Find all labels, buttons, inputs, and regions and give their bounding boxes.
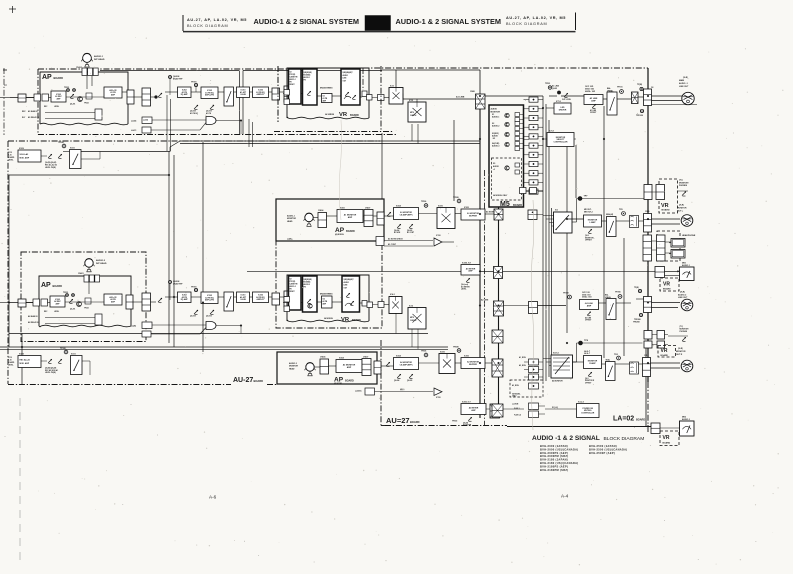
svg-text:S2 A1+A2: S2 A1+A2 [20, 153, 29, 156]
svg-text:TP506: TP506 [421, 201, 426, 203]
svg-text:BVH-2500 (US)/(CANADA): BVH-2500 (US)/(CANADA) [589, 447, 627, 451]
svg-text:TPE108: TPE108 [636, 115, 643, 117]
svg-text:AMPLIFY: AMPLIFY [257, 93, 266, 96]
svg-text:BVH-2180PS (AEP): BVH-2180PS (AEP) [540, 464, 568, 468]
board headphone dashed box [657, 231, 680, 261]
svg-text:LEVEL PH(M): LEVEL PH(M) [45, 167, 56, 169]
svg-text:A1 PB EQ: A1 PB EQ [190, 112, 199, 115]
block A2 LINE AMP [580, 300, 599, 310]
transistor vr2 [308, 304, 312, 308]
test point TP301 [194, 83, 197, 86]
svg-text:BVH-2500 (JAPAN): BVH-2500 (JAPAN) [589, 444, 617, 448]
svg-text:BOARD: BOARD [345, 380, 354, 383]
svg-text:TP202: TP202 [84, 103, 89, 105]
wire A2 row joins [599, 302, 607, 304]
svg-text:CONTROLLER: CONTROLLER [581, 412, 595, 414]
svg-text:Q/L605: Q/L605 [407, 380, 412, 382]
svg-text:VR: VR [341, 317, 350, 323]
wire monitor1 chain [384, 215, 394, 217]
svg-text:HEAD: HEAD [289, 367, 295, 370]
top-left small wire stubs [0, 97, 10, 99]
svg-text:AUDIO-2: AUDIO-2 [682, 418, 690, 421]
svg-text:A2 LINE: A2 LINE [481, 299, 489, 302]
svg-text:04 MODEL ONLY: 04 MODEL ONLY [493, 194, 508, 197]
svg-text:AP: AP [42, 74, 52, 81]
board VR2 box wavy [287, 275, 369, 321]
svg-text:AU-27, AP, LA-02, VR, M5: AU-27, AP, LA-02, VR, M5 [506, 16, 566, 20]
svg-text:(XLR): (XLR) [683, 77, 688, 79]
svg-text:AUDIO -1: AUDIO -1 [679, 82, 689, 85]
svg-text:AUDIO-1: AUDIO-1 [492, 116, 499, 119]
svg-text:AUDIO-1: AUDIO-1 [94, 55, 104, 58]
block IC302 A2 PB EQ AMP [178, 292, 192, 303]
svg-text:Q/L(M): Q/L(M) [463, 423, 469, 425]
svg-text:Q/L605: Q/L605 [407, 230, 412, 232]
wire chain ap2 [26, 302, 33, 304]
connector VR2 out squares [362, 301, 367, 307]
wire mod amp upper [41, 155, 47, 157]
svg-text:AP: AP [41, 282, 51, 289]
svg-text:IC6: IC6 [555, 210, 558, 212]
svg-text:AUDIO-1 & 2 SIGNAL SYSTEM: AUDIO-1 & 2 SIGNAL SYSTEM [254, 17, 360, 26]
connector monitor R out [643, 358, 651, 377]
svg-text:IC504: IC504 [396, 205, 401, 208]
block AUDIO LINE OUT (thick) [341, 69, 360, 105]
svg-text:MB OUT-2: MB OUT-2 [584, 211, 593, 213]
svg-text:RTC(M): RTC(M) [290, 281, 296, 283]
svg-text:R/P HEAD: R/P HEAD [94, 58, 105, 61]
wire vertical x=249/252 mute lines [248, 119, 250, 147]
test point TP7 [578, 197, 582, 201]
svg-text:A2 RELAY IN: A2 RELAY IN [28, 321, 40, 324]
svg-text:HEAD: HEAD [287, 220, 293, 223]
svg-text:TP50B: TP50B [453, 347, 459, 349]
svg-text:BVH-2000PM (SRZ): BVH-2000PM (SRZ) [540, 454, 568, 458]
trimmers below IC504 [397, 224, 401, 228]
board AP monitor1 box [276, 199, 384, 241]
board VR1 box wavy [287, 68, 369, 118]
la02 dashed 04-model box [510, 380, 543, 397]
svg-text:DRIVER: DRIVER [559, 109, 567, 111]
switch S301 [224, 87, 234, 106]
trimmer meter amp [466, 278, 470, 282]
node input pad [18, 94, 26, 102]
board border left x=38 top section [37, 69, 39, 135]
board VR2 outer dash-dot box [276, 241, 382, 328]
svg-text:CONTROLLER: CONTROLLER [554, 142, 568, 144]
svg-text:PHONES: PHONES [679, 185, 688, 187]
svg-text:CHECK: CHECK [410, 320, 417, 322]
hatched connector [632, 92, 639, 104]
connector VR1 in squares [284, 90, 290, 96]
block AUDIO LINE OUT 2 (thick) [342, 276, 360, 312]
block IC302 A1 PB EQ AMP [178, 87, 192, 98]
wire inside monitor1 [314, 217, 319, 219]
svg-text:BOARD: BOARD [663, 288, 671, 291]
wire vertical x=382 VR to AP monitor [381, 133, 383, 199]
svg-text:OUT L: OUT L [677, 211, 684, 213]
connector CN(M) on monitor feed [528, 210, 537, 220]
svg-text:AMP: AMP [468, 270, 473, 273]
connector on bus monitor1 [494, 209, 503, 220]
small relay box [86, 93, 92, 99]
connector A2 line out stack [644, 297, 652, 313]
chain right of monitor1: trimmer [387, 212, 391, 216]
wire vertical x=454 [453, 120, 455, 201]
board VR dashed box 2 [660, 278, 679, 291]
test point Q/L908 label [169, 76, 172, 79]
svg-text:OUT LEVEL: OUT LEVEL [562, 99, 571, 101]
wire VR2 chain [283, 302, 289, 304]
board LA-02 box bottom [507, 426, 651, 428]
svg-text:(XLR): (XLR) [679, 205, 684, 207]
svg-text:AUDIO-1: AUDIO-1 [287, 215, 295, 218]
svg-text:BVH-2180 (US)/(CANADA): BVH-2180 (US)/(CANADA) [540, 461, 578, 465]
svg-text:AU-27: AU-27 [233, 377, 253, 384]
svg-text:LL354: LL354 [143, 119, 148, 122]
block S2 cassette reset 2 (thick) [289, 276, 302, 310]
connector stack la02 top [492, 330, 503, 343]
svg-text:MONITOR: MONITOR [491, 111, 501, 113]
wire monitor2 chain [381, 365, 394, 367]
header separator tick right [575, 13, 577, 31]
wire A1 line row [485, 95, 543, 97]
svg-text:AUDIO: AUDIO [343, 74, 349, 77]
pot symbols VR2 [346, 293, 350, 297]
svg-text:TP(M): TP(M) [634, 287, 639, 289]
wires bundle into R switch [543, 358, 551, 360]
svg-text:AP: AP [335, 227, 345, 234]
wire long horizontal y=151 (mod amp row) [81, 151, 170, 153]
test point TP8 [579, 341, 583, 345]
test point TP6 [622, 212, 626, 216]
svg-text:A1 LINE: A1 LINE [552, 85, 560, 88]
svg-text:BVH-2000 (JAPAN): BVH-2000 (JAPAN) [540, 444, 568, 448]
wire VR1 chain [283, 93, 289, 95]
svg-text:BOARD: BOARD [513, 204, 522, 207]
test point TP208 upper [62, 144, 66, 148]
board AP2 box wavy [39, 276, 131, 326]
svg-text:TP308: TP308 [563, 293, 569, 295]
wire IC11 to top rail [395, 70, 397, 88]
op-amp IC310 buffer [434, 238, 442, 246]
header black separator box [365, 16, 391, 31]
wire audio2 bus y=333 [9, 333, 428, 335]
svg-text:IC1: IC1 [323, 96, 326, 98]
svg-text:CN601: CN601 [78, 273, 84, 275]
svg-text:A1 MUTE CHECK: A1 MUTE CHECK [388, 238, 403, 241]
svg-text:MONITOR/: MONITOR/ [679, 182, 689, 184]
connectors above XLR R row2 [644, 341, 652, 348]
test point TP301 ap2 [194, 288, 197, 291]
svg-text:04 MODEL: 04 MODEL [324, 317, 334, 320]
trimmer pb2 [158, 298, 162, 302]
wire mute bus pair y=141/143.5 [180, 140, 480, 142]
board AP monitor2 box [277, 352, 377, 384]
wire vertical x=203 long [202, 142, 204, 352]
svg-text:OFFSET: OFFSET [590, 112, 596, 114]
svg-text:AMPLIFY: AMPLIFY [257, 298, 266, 301]
test point TP506 m2 [424, 353, 428, 357]
svg-text:A1 RELAY IN: A1 RELAY IN [28, 116, 40, 119]
wire A1 line y=99 to connector [403, 98, 475, 100]
block input squares ap2 [33, 299, 40, 306]
wire R switch out to TP8 [573, 361, 577, 363]
svg-text:BOARD: BOARD [53, 284, 63, 288]
svg-text:TP101: TP101 [617, 87, 623, 89]
connectors above XLR R row1 [644, 331, 652, 340]
connector pair mid [529, 302, 538, 314]
trimmers below IC504 m2 [397, 374, 401, 378]
svg-text:TP306: TP306 [615, 292, 621, 294]
svg-text:AUDIO -1 & 2 SIGNAL: AUDIO -1 & 2 SIGNAL [532, 435, 600, 442]
svg-text:TP(M): TP(M) [637, 84, 642, 86]
board VR dashed box 4 [660, 431, 679, 446]
svg-text:LEVEL: LEVEL [461, 289, 466, 291]
svg-text:MODE(M): MODE(M) [304, 75, 311, 77]
svg-text:TP201: TP201 [64, 87, 69, 89]
svg-text:MONITOR: MONITOR [677, 208, 687, 210]
svg-text:BLOCK DIAGRAM: BLOCK DIAGRAM [604, 436, 645, 442]
block AF LINE AMP [584, 95, 603, 105]
svg-text:AMP: AMP [587, 304, 592, 307]
board AU-27 bottom dash y=384 [8, 384, 231, 386]
trimmer m2 [386, 362, 390, 366]
svg-text:VR: VR [663, 282, 670, 288]
pot monitor phones [682, 192, 686, 196]
svg-text:IC310: IC310 [436, 235, 441, 237]
trimmer rec level [70, 94, 74, 98]
connector pair on bus at monitor row [644, 185, 652, 200]
svg-text:600ΩL: 10Ω: 600ΩL: 10Ω [582, 297, 592, 299]
svg-text:CN201: CN201 [76, 67, 82, 69]
svg-text:CN09: CN09 [645, 211, 649, 213]
trimmer audio-2 pb [307, 299, 311, 303]
svg-text:AMP: AMP [348, 216, 353, 219]
svg-text:LL473: LL473 [131, 129, 136, 132]
test point TP308 lower [64, 350, 68, 354]
svg-text:TP302: TP302 [452, 421, 457, 423]
board VR1 outer dash-dot segments [277, 66, 279, 122]
svg-text:CE AMP (BPF): CE AMP (BPF) [400, 213, 413, 216]
connector VR2 in squares [284, 297, 290, 303]
wire verticals IC12 to mute bus [411, 124, 413, 141]
svg-text:AMP: AMP [471, 409, 476, 412]
svg-text:AUDIO: AUDIO [493, 165, 499, 168]
svg-text:TP506: TP506 [421, 351, 426, 353]
wire vertical x=239 pair [239, 71, 241, 135]
svg-text:BVH-2000PS (AEP): BVH-2000PS (AEP) [540, 451, 568, 455]
svg-text:EQ AMP: EQ AMP [181, 93, 189, 96]
svg-text:A-4: A-4 [561, 494, 569, 499]
block IC306 A1 PB EQ AMPLIFY [253, 87, 269, 98]
trimmer below AF amp [592, 104, 596, 108]
wires bundle into L switch [543, 215, 554, 217]
connector on bus monitor2 [492, 359, 502, 376]
svg-text:S2: S2 [290, 72, 292, 74]
svg-text:-4: -4 [493, 168, 495, 171]
mute line LL473 [142, 127, 151, 133]
wire monitor L to XLR [652, 218, 681, 220]
connector boxes feed y=190 [520, 188, 527, 194]
svg-text:BOARD: BOARD [661, 354, 669, 357]
connector after chain ap2 [272, 293, 280, 305]
svg-text:VR: VR [663, 435, 670, 441]
svg-text:OUT R: OUT R [676, 354, 683, 356]
svg-text:LL260 A: LL260 A [355, 390, 362, 393]
header separator tick left [182, 15, 184, 31]
svg-text:MAIN: MAIN [679, 79, 685, 82]
svg-text:S(M)(M)S(M): S(M)(M)S(M) [304, 279, 313, 281]
svg-text:LEVEL: LEVEL [8, 160, 13, 162]
svg-text:OFFSET: OFFSET [585, 382, 591, 384]
svg-text:TP201: TP201 [63, 292, 68, 294]
wire long horizontal y=175 [9, 174, 169, 176]
svg-text:A2 BIAS IN: A2 BIAS IN [28, 315, 38, 318]
svg-text:MONITOR: MONITOR [287, 218, 297, 220]
trimmer monitor R [588, 372, 592, 376]
svg-text:Q/L92: Q/L92 [552, 88, 557, 90]
headphone jack 2 [671, 250, 685, 259]
mute line LL354 [142, 117, 152, 124]
svg-text:BVH-2000 (US)/(CANADA): BVH-2000 (US)/(CANADA) [540, 447, 578, 451]
svg-text:IC4-2: IC4-2 [390, 293, 395, 296]
svg-text:RESET: RESET [290, 291, 295, 293]
svg-text:S5: S5 [493, 163, 495, 165]
svg-text:PHONES: PHONES [680, 331, 688, 333]
page border dash left x=4 [3, 68, 5, 135]
small pad [377, 212, 384, 225]
svg-text:LL(M)+: LL(M)+ [287, 239, 293, 241]
svg-text:BOARD: BOARD [254, 379, 264, 383]
left edge crop dashes [19, 398, 21, 560]
svg-text:AU=27: AU=27 [386, 416, 410, 425]
wire vertical dash x=484.5 AU-27 border [484, 170, 486, 426]
trimmer line level [564, 93, 568, 97]
wire inside monitor2 [315, 366, 321, 368]
wire L switch out to TP7 [572, 221, 577, 223]
trimmer A2 meter [468, 417, 472, 421]
svg-text:TP50B: TP50B [453, 197, 459, 199]
trimmer inside audio-1 pb [307, 91, 311, 95]
connector meter row [494, 267, 503, 279]
paper crease light vertical [531, 200, 534, 430]
svg-text:AMP: AMP [591, 99, 596, 102]
svg-text:(TC): (TC) [679, 180, 683, 182]
block S2 cassette reset (thick) [289, 69, 302, 104]
block IC306 A2 PB EQ AMPLIFY [253, 292, 269, 303]
svg-text:VR: VR [339, 112, 348, 118]
block MONITOR L AMP [584, 215, 602, 227]
svg-text:LL354: LL354 [131, 120, 136, 123]
test point TP(M)102 [640, 87, 643, 90]
svg-text:R/P HEAD: R/P HEAD [96, 262, 107, 265]
transistor Q201 [78, 97, 83, 102]
wire to XLR [652, 95, 683, 97]
svg-text:AUDIO-2: AUDIO-2 [678, 293, 687, 296]
block IC1 A1 PB AMP [322, 94, 333, 103]
op-amp buffer m2 [434, 388, 442, 396]
svg-text:BOARD: BOARD [54, 76, 64, 80]
wire top rail y=70 [100, 70, 239, 72]
svg-text:BOARD: BOARD [662, 209, 670, 212]
svg-text:BVH-2180PM (SRZ): BVH-2180PM (SRZ) [540, 468, 568, 472]
svg-text:IC504: IC504 [396, 355, 401, 358]
svg-text:CALIB: CALIB [240, 298, 246, 301]
svg-text:MPU: MPU [410, 112, 415, 114]
svg-text:BOARD: BOARD [636, 419, 645, 422]
svg-text:A-6: A-6 [209, 495, 217, 500]
svg-text:CN10: CN10 [644, 355, 648, 357]
svg-text:AUDIO: AUDIO [491, 108, 498, 111]
svg-text:ERASE WIRING: ERASE WIRING [320, 293, 333, 296]
board AU-27 second border y=141 full width [8, 140, 380, 142]
svg-text:TP202: TP202 [84, 308, 89, 310]
connector stack la02 low [492, 404, 503, 417]
svg-text:BOARD: BOARD [410, 420, 420, 424]
headphone jack 1 [671, 239, 685, 248]
board AU-27 lower border x=381 [380, 340, 382, 426]
wire from gate to x=241 [240, 121, 242, 135]
svg-text:BVH-2180 (JAPAN): BVH-2180 (JAPAN) [540, 458, 568, 462]
svg-text:OFFSET: OFFSET [585, 240, 593, 242]
wire main vertical bus x=480 upper [479, 96, 481, 418]
AND gate mute [206, 117, 216, 125]
mic head AUDIO-1 RP HEAD [83, 54, 92, 63]
svg-text:BOARD: BOARD [663, 442, 671, 445]
svg-text:BOARD: BOARD [352, 319, 361, 322]
svg-text:BLOCK DIAGRAM: BLOCK DIAGRAM [506, 22, 547, 26]
connector A1 LINE on bus [476, 94, 486, 109]
ladder connector column [529, 97, 538, 102]
board M5 thick box [489, 105, 524, 207]
svg-text:VR: VR [661, 203, 669, 209]
connector meter1 [655, 267, 665, 278]
board AU-27 outer border top (y=69) [38, 68, 305, 70]
svg-text:BLOCK DIAGRAM: BLOCK DIAGRAM [187, 24, 228, 28]
svg-text:IC6 S-1: IC6 S-1 [553, 353, 559, 355]
coil monitor R [630, 362, 639, 374]
svg-text:L AMP: L AMP [589, 221, 596, 224]
svg-text:A1 BIAS IN: A1 BIAS IN [28, 110, 38, 113]
svg-text:AMP (LPF): AMP (LPF) [205, 94, 214, 97]
connector stack la02 mid [492, 359, 503, 377]
trimmer pb level [158, 93, 162, 97]
test point TPE [639, 313, 642, 316]
wire meter2 line [500, 408, 525, 410]
test point TP508 m2 [457, 349, 461, 353]
svg-text:AUDIO: AUDIO [344, 281, 350, 284]
switch S301 ap2 [224, 292, 234, 311]
svg-text:LL-RGM: LL-RGM [512, 404, 519, 406]
svg-text:TP301: TP301 [191, 82, 197, 84]
svg-text:BOARD: BOARD [346, 230, 355, 233]
wire verticals x=167-174 down from eq chain [166, 95, 168, 151]
svg-text:REC A2+A1: REC A2+A1 [20, 359, 30, 362]
svg-text:LEVEL PH(M): LEVEL PH(M) [45, 372, 56, 374]
svg-text:A1 PB: A1 PB [206, 112, 212, 115]
svg-text:TP501: TP501 [545, 83, 550, 85]
wire top loop to line-out connector [382, 69, 480, 71]
wire IC12 top stub [416, 99, 418, 102]
svg-text:CE AMP (BPF): CE AMP (BPF) [400, 363, 413, 366]
svg-text:(XLR): (XLR) [678, 348, 683, 350]
svg-text:LEVEL: LEVEL [54, 106, 59, 108]
wire lower left vertical x=22 [21, 334, 23, 386]
test point filled on line [558, 91, 561, 94]
mic audio-2 rp head [85, 259, 93, 267]
svg-text:S(M)(M)S(M): S(M)(M)S(M) [304, 72, 313, 74]
